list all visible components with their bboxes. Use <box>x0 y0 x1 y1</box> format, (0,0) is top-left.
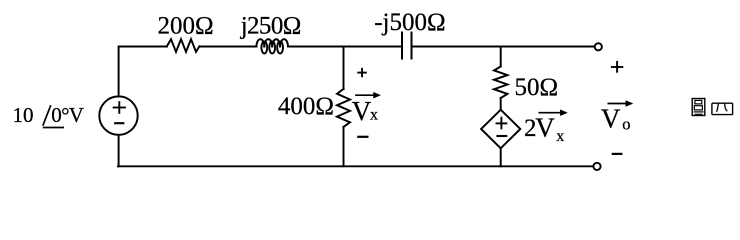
svg-text:V: V <box>601 103 621 133</box>
svg-text:V: V <box>352 96 372 126</box>
svg-text:x: x <box>556 128 564 145</box>
svg-text:200Ω: 200Ω <box>158 13 214 40</box>
svg-text:0°V: 0°V <box>51 103 83 127</box>
svg-text:50Ω: 50Ω <box>515 74 559 101</box>
svg-text:x: x <box>370 107 378 124</box>
svg-text:10: 10 <box>13 103 34 127</box>
svg-text:V: V <box>535 113 555 143</box>
svg-text:-j500Ω: -j500Ω <box>374 9 445 36</box>
svg-text:j250Ω: j250Ω <box>240 13 301 40</box>
svg-text:400Ω: 400Ω <box>278 93 334 120</box>
svg-text:o: o <box>622 115 630 134</box>
